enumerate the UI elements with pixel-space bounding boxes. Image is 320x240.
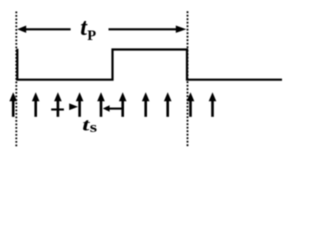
ts dimension crossbar through arrow 3 <box>51 108 64 110</box>
sampling up-arrow 7 <box>142 92 150 117</box>
left dotted boundary line <box>15 12 17 147</box>
sampling up-arrow 8 <box>164 92 172 117</box>
svg-text:s: s <box>90 119 98 136</box>
svg-text:P: P <box>87 28 96 44</box>
sampling up-arrow 3 <box>54 92 62 117</box>
sampling up-arrow 5 <box>97 92 105 117</box>
sampling up-arrow 1 <box>9 92 17 117</box>
label ts <box>82 115 90 134</box>
sampling up-arrow 6 <box>119 92 127 117</box>
ts dimension left-pointing arrow (head at arrow 5, tail to arrow 6) <box>103 105 123 112</box>
pulse waveform <box>17 49 282 80</box>
ts dimension right-pointing arrowhead at arrow 4 <box>69 103 78 110</box>
right dotted boundary line <box>187 11 189 146</box>
tP dimension left arrowhead <box>17 26 26 33</box>
sampling up-arrow 4 <box>76 92 84 117</box>
tP dimension right arrowhead <box>176 26 187 33</box>
sampling up-arrow 2 <box>32 92 40 117</box>
sampling up-arrow 10 <box>209 92 217 117</box>
sampling up-arrow 9 <box>187 92 195 117</box>
tP dimension left arrow shaft <box>25 28 71 30</box>
tP dimension right arrow shaft <box>109 28 178 30</box>
